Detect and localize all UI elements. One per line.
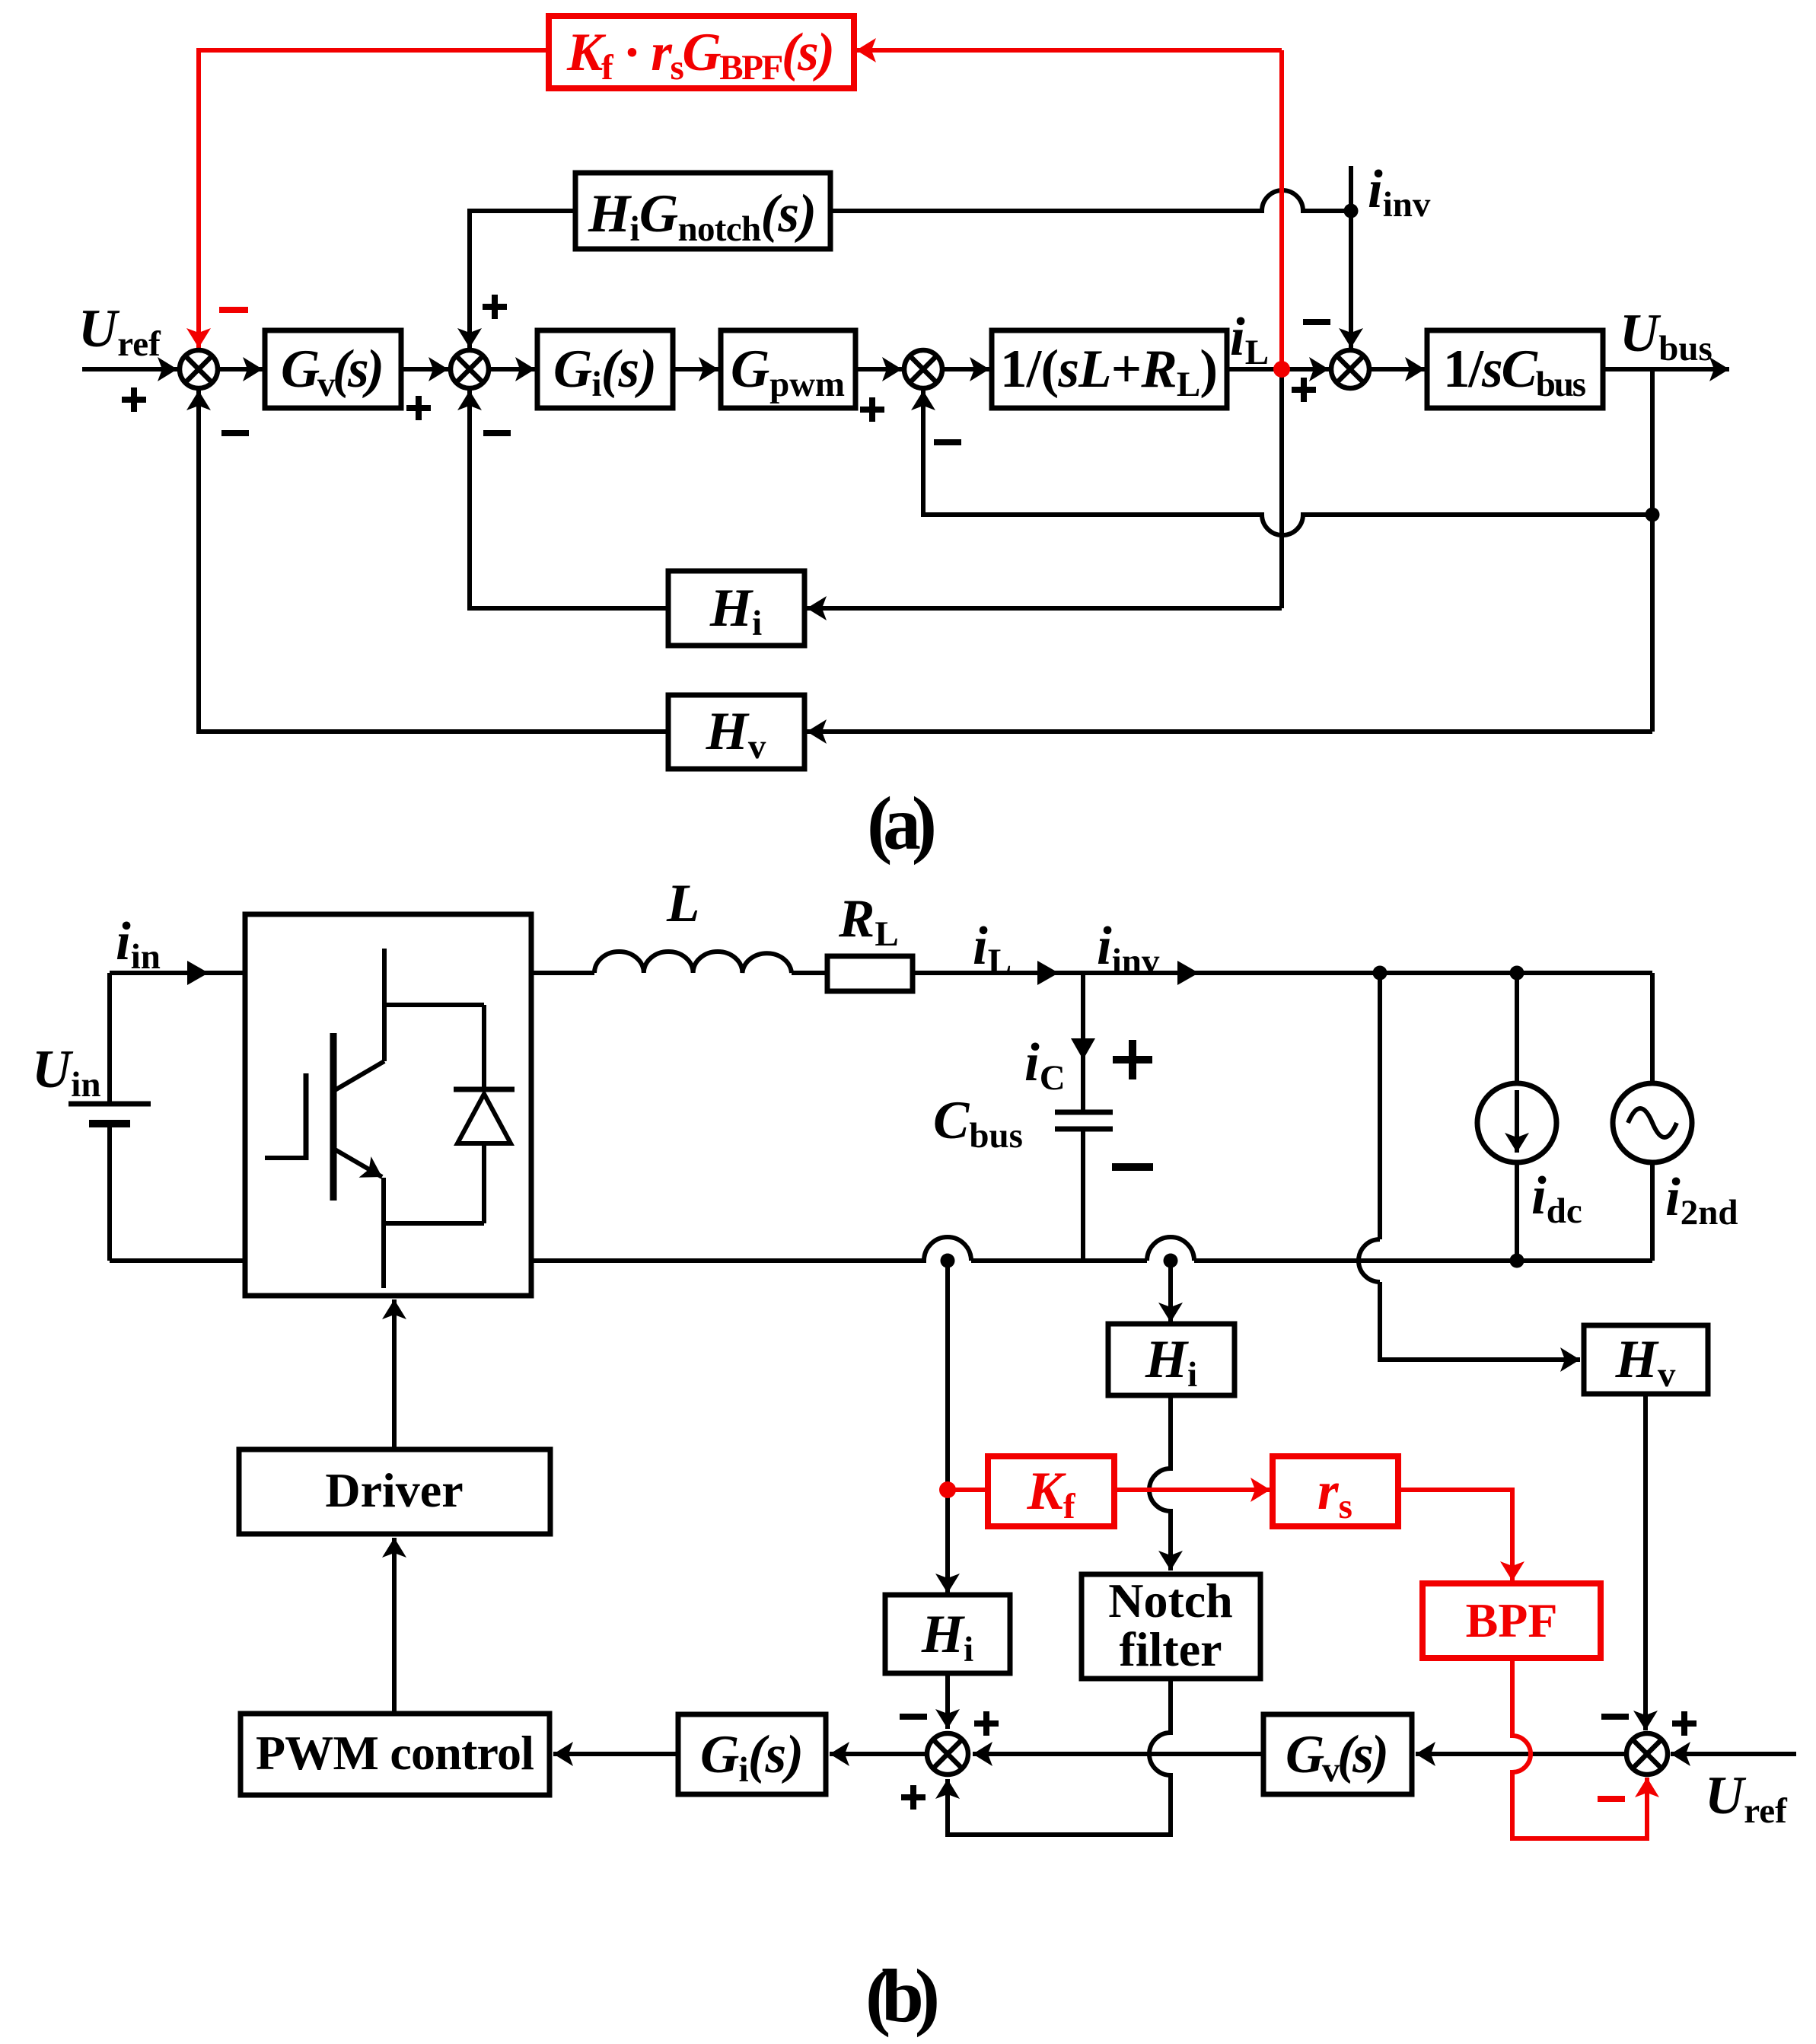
- svg-text:Gi(s): Gi(s): [700, 1725, 804, 1790]
- svg-text:iinv: iinv: [1097, 917, 1160, 981]
- svg-text:Uin: Uin: [32, 1040, 100, 1105]
- svg-text:Gv(s): Gv(s): [1286, 1725, 1389, 1790]
- svg-text:i2nd: i2nd: [1665, 1168, 1738, 1232]
- svg-text:(b): (b): [865, 1953, 940, 2038]
- svg-text:idc: idc: [1531, 1166, 1582, 1231]
- svg-text:Gi(s): Gi(s): [553, 340, 657, 404]
- svg-text:L: L: [666, 874, 699, 933]
- svg-text:filter: filter: [1120, 1622, 1222, 1676]
- svg-text:iL: iL: [1230, 308, 1269, 372]
- svg-text:iin: iin: [116, 912, 161, 977]
- svg-text:iinv: iinv: [1368, 160, 1431, 225]
- svg-text:iC: iC: [1024, 1033, 1066, 1098]
- svg-text:Uref: Uref: [78, 299, 161, 364]
- svg-text:Driver: Driver: [325, 1463, 463, 1517]
- svg-text:Ubus: Ubus: [1620, 304, 1712, 368]
- svg-text:PWM control: PWM control: [256, 1726, 534, 1780]
- svg-text:Uref: Uref: [1705, 1766, 1788, 1831]
- svg-text:iL: iL: [973, 917, 1012, 981]
- svg-text:Cbus: Cbus: [933, 1091, 1023, 1156]
- svg-text:RL: RL: [838, 889, 899, 954]
- svg-text:Notch: Notch: [1108, 1574, 1233, 1628]
- svg-text:(a): (a): [867, 781, 937, 866]
- svg-text:Gv(s): Gv(s): [281, 340, 384, 404]
- svg-text:BPF: BPF: [1466, 1593, 1558, 1647]
